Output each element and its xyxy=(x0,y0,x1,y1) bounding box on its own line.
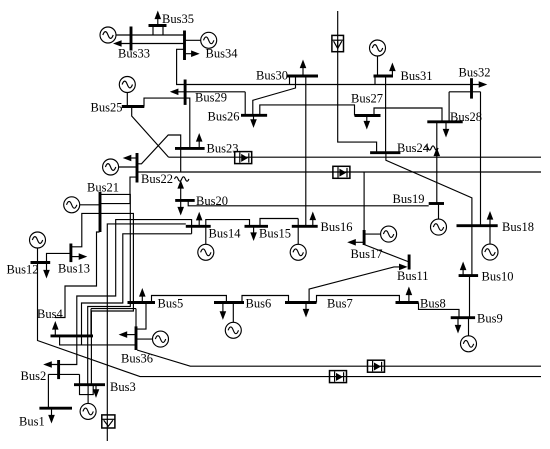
wire Bus22 to Bus21 xyxy=(100,177,137,204)
bus Bus7 xyxy=(285,301,317,304)
bus Bus16 xyxy=(292,225,318,228)
bus Bus10 xyxy=(459,274,479,277)
bus Bus34 xyxy=(183,31,186,61)
svg-text:Bus5: Bus5 xyxy=(158,297,184,311)
wire Bus5 to Bus6 xyxy=(152,296,227,303)
bus Bus23 xyxy=(175,147,205,150)
generator G6 xyxy=(225,303,241,339)
wire long line L2 xyxy=(137,171,541,173)
load arrow Bus28 xyxy=(443,122,450,138)
svg-text:Bus8: Bus8 xyxy=(420,297,446,311)
bus Bus14 xyxy=(186,225,211,228)
wire Bus8 to Bus9 xyxy=(419,303,460,318)
bus Bus9 xyxy=(451,316,475,319)
svg-text:Bus32: Bus32 xyxy=(459,66,491,80)
svg-text:Bus6: Bus6 xyxy=(246,297,272,311)
load arrow Bus35 xyxy=(155,11,162,26)
svg-text:Bus35: Bus35 xyxy=(162,12,194,26)
load arrow Bus30 xyxy=(300,60,307,77)
svg-text:Bus7: Bus7 xyxy=(327,297,353,311)
converter box on L2 xyxy=(333,166,350,178)
load arrow Bus3 xyxy=(93,385,100,398)
wire Bus14 elevated to bundle xyxy=(51,220,192,365)
wire Bus25 diagonal to L1 xyxy=(132,107,169,158)
bus Bus28 xyxy=(427,120,462,123)
bus Bus19 xyxy=(429,202,444,205)
wire Bus30 to Bus16 long vertical xyxy=(305,76,307,226)
wire Bus32 to Bus28 and Bus18 xyxy=(449,92,480,226)
svg-text:Bus3: Bus3 xyxy=(110,380,136,394)
load arrow Bus4 xyxy=(52,321,59,336)
bus Bus8 xyxy=(396,301,419,304)
load arrow Bus7 xyxy=(303,303,310,318)
load arrow Bus26 xyxy=(250,115,257,128)
load arrow Bus34 xyxy=(186,50,200,57)
wire Bus15 to Bus16 xyxy=(260,219,298,227)
svg-text:Bus19: Bus19 xyxy=(393,192,425,206)
svg-text:Bus29: Bus29 xyxy=(195,91,227,105)
bus Bus20 xyxy=(175,199,195,202)
load arrow Bus27 xyxy=(364,116,371,130)
load arrow Bus5 xyxy=(139,288,146,303)
load arrow Bus14 xyxy=(196,212,203,227)
squiggle Bus24 xyxy=(425,146,439,150)
load arrow Bus15 xyxy=(250,226,257,241)
external grid box bottom xyxy=(102,415,115,428)
load arrow Bus22 xyxy=(123,155,137,162)
load arrow Bus31 xyxy=(389,63,396,77)
generator G25 xyxy=(119,77,135,107)
svg-text:Bus16: Bus16 xyxy=(321,220,353,234)
svg-text:Bus11: Bus11 xyxy=(397,269,429,283)
wire Bus22 zigzag to Bus20 line (diagonal B) xyxy=(137,135,181,172)
generator G36 xyxy=(136,331,169,347)
generator G3 xyxy=(80,385,96,420)
svg-text:Bus25: Bus25 xyxy=(91,101,123,115)
generator G21 xyxy=(64,197,100,213)
wire Bus31 to Bus24 xyxy=(385,76,387,153)
wire Bus14 to Bus15 xyxy=(206,220,250,227)
svg-text:Bus27: Bus27 xyxy=(351,92,383,106)
generator G18 xyxy=(482,226,498,260)
svg-text:Bus14: Bus14 xyxy=(209,227,242,241)
bus Bus17 xyxy=(363,230,366,245)
svg-text:Bus1: Bus1 xyxy=(19,415,45,429)
load arrow Bus10 xyxy=(460,262,467,276)
load arrow Bus13 xyxy=(71,253,87,260)
wire Bus26 to Bus27 xyxy=(260,105,355,116)
bus Bus30 xyxy=(287,75,319,78)
bus Bus26 xyxy=(241,114,267,117)
bus Bus3 xyxy=(74,383,105,386)
load arrow Bus12 xyxy=(43,263,50,279)
svg-text:Bus21: Bus21 xyxy=(87,181,119,195)
wire Bus20 to Bus19 xyxy=(188,200,429,205)
svg-text:Bus15: Bus15 xyxy=(259,227,291,241)
bus Bus32 xyxy=(470,78,473,98)
bus Bus12 xyxy=(31,261,51,264)
wire Bus4 to Bus36 lower xyxy=(60,336,136,345)
generator G12 xyxy=(30,232,46,263)
load arrow Bus36 xyxy=(119,331,136,338)
generator G14 xyxy=(198,226,214,260)
svg-text:Bus2: Bus2 xyxy=(21,369,47,383)
load arrow Bus1 xyxy=(48,408,55,423)
squiggle Bus22 xyxy=(175,177,189,181)
converter box on L4 xyxy=(330,371,347,383)
bus Bus29 xyxy=(184,80,187,105)
svg-text:Bus13: Bus13 xyxy=(58,262,90,276)
bus Bus18 xyxy=(457,224,498,227)
wire Bus28 to Bus19 with up arrow xyxy=(434,122,441,204)
generator G9 xyxy=(461,318,477,352)
bus Bus27 xyxy=(355,114,381,117)
wire Bus21 bar bottom to Bus4 feed xyxy=(55,232,100,318)
generator G15 xyxy=(290,219,306,261)
bus Bus22 xyxy=(136,153,139,183)
generator G33 xyxy=(100,27,116,43)
bus Bus21 xyxy=(99,192,102,232)
wire Bus12 to Bus13 xyxy=(47,253,71,262)
wire Bus17 to Bus11 diagonal xyxy=(364,245,409,263)
svg-text:Bus26: Bus26 xyxy=(208,110,240,124)
wire external grid to Bus24 xyxy=(338,11,377,153)
svg-text:Bus9: Bus9 xyxy=(477,312,503,326)
converter box on L3 xyxy=(368,360,385,372)
wire Bus7 to Bus8 xyxy=(317,296,400,303)
bus Bus13 xyxy=(69,244,72,263)
bus Bus33 xyxy=(130,27,133,51)
bus Bus24 xyxy=(370,151,400,154)
load arrow Bus33 xyxy=(113,40,185,47)
svg-text:Bus33: Bus33 xyxy=(118,47,150,61)
bus Bus11 xyxy=(408,255,411,270)
svg-text:Bus23: Bus23 xyxy=(207,142,239,156)
generator G31 xyxy=(370,40,386,76)
wire Bus4 to Bus36 upper xyxy=(91,309,136,336)
load arrow Bus23 xyxy=(196,133,203,148)
load arrow Bus8 xyxy=(406,287,413,303)
bus Bus5 xyxy=(128,301,156,304)
wire Bus34 to Bus29/Bus30/Bus31 line with arrow into Bus32 xyxy=(177,49,488,88)
wire Bus21 top to Bus3 xyxy=(88,194,131,384)
svg-text:Bus12: Bus12 xyxy=(7,263,39,277)
wire G34 xyxy=(185,39,201,41)
wire Bus25 to Bus23 via Bus29 xyxy=(144,98,190,148)
external grid box top xyxy=(332,35,344,51)
svg-text:Bus4: Bus4 xyxy=(37,307,63,321)
wire Bus7 to Bus11 with arrow xyxy=(309,264,408,303)
wire Bus12 fence diagonal and long line L4 xyxy=(38,263,542,377)
svg-text:Bus34: Bus34 xyxy=(206,47,239,61)
svg-text:Bus17: Bus17 xyxy=(351,247,383,261)
wire Bus27 to Bus28 xyxy=(374,108,442,122)
bus Bus4 xyxy=(51,334,94,337)
wire Bus13 to Bus3 xyxy=(71,213,133,384)
svg-text:Bus36: Bus36 xyxy=(121,352,153,366)
generator G19 xyxy=(431,204,447,236)
bus Bus31 xyxy=(374,75,394,78)
wire L2 to Bus17 riser xyxy=(363,172,365,230)
svg-text:Bus30: Bus30 xyxy=(256,69,288,83)
generator G17 xyxy=(364,226,397,242)
svg-text:Bus22: Bus22 xyxy=(141,172,173,186)
wire Bus10 to Bus9 xyxy=(469,276,471,318)
load arrow Bus16 xyxy=(310,212,317,227)
bus Bus15 xyxy=(245,225,269,228)
bus Bus6 xyxy=(214,301,244,304)
bus Bus35 xyxy=(149,24,167,27)
load arrow Bus9 xyxy=(455,318,462,334)
wire Bus35 stub 1 xyxy=(152,26,154,36)
wire Bus24 diagonal to Bus10/Bus9 xyxy=(386,153,472,276)
wire Bus5 to Bus36 xyxy=(137,303,146,330)
generator G22 xyxy=(103,159,137,175)
svg-text:Bus10: Bus10 xyxy=(482,270,514,284)
load arrow Bus18 xyxy=(487,211,494,226)
load arrow Bus6 xyxy=(220,303,227,320)
svg-text:Bus18: Bus18 xyxy=(502,220,534,234)
wire Bus31 stub xyxy=(374,76,376,85)
bus Bus25 xyxy=(122,105,145,108)
generator G34 xyxy=(201,32,217,48)
svg-text:Bus31: Bus31 xyxy=(401,69,433,83)
wire Bus30 stub xyxy=(289,76,291,85)
wire Bus14 bar-level to bundle and external grid box xyxy=(107,224,186,441)
load arrow Bus17 xyxy=(347,239,364,246)
load arrow into Bus2 xyxy=(43,361,52,368)
wire Bus6 to Bus7 xyxy=(242,296,289,303)
wire fence from Bus36 and long line L3 xyxy=(137,350,541,366)
converter box on L1 xyxy=(235,152,252,164)
wire long line L1 xyxy=(169,156,541,158)
wire Bus35 stub 2 xyxy=(162,26,164,36)
arrow into Bus29 from Bus26 xyxy=(170,89,245,116)
wire Bus14 lower to bundle xyxy=(82,234,192,345)
double arrow Bus22 line to Bus20 xyxy=(177,180,184,216)
wire Bus1 Bus2 Bus3 links xyxy=(48,374,93,408)
svg-text:Bus28: Bus28 xyxy=(450,110,482,124)
wire Bus30 to Bus26 diagonal xyxy=(253,76,296,115)
wire G33 to Bus34 xyxy=(116,34,185,36)
bus Bus1 xyxy=(39,407,72,410)
bus Bus2 xyxy=(57,360,60,379)
bus Bus36 xyxy=(135,326,138,350)
